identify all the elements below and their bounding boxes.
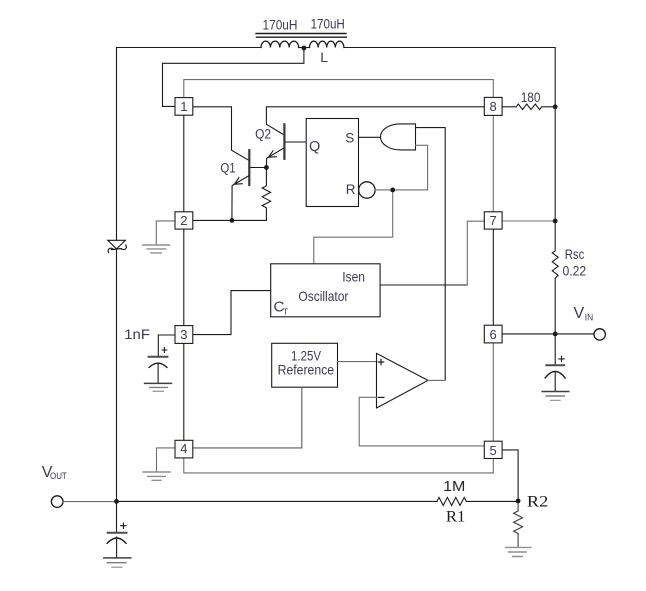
transistor Q2 bar — [283, 124, 285, 159]
wire Vin junction to terminal — [555, 333, 594, 335]
vertical pin7 to pin6 — [492, 229, 494, 325]
terminal Vout circle — [51, 496, 63, 508]
svg-text:180: 180 — [521, 90, 541, 105]
wire Q2 collector to pin8 left — [266, 107, 483, 134]
capacitor Cout plus plate — [108, 532, 127, 534]
and gate U2 (left facing) — [381, 124, 416, 150]
vertical pin3 to pin4 — [183, 343, 185, 440]
svg-text:T: T — [283, 307, 288, 317]
flip-flop S wire to gate — [359, 136, 382, 138]
diode D1 lead lower — [116, 250, 118, 502]
comparator U3 — [377, 353, 429, 408]
wire gate top input to comparator output — [416, 128, 446, 380]
ground (pin4) — [143, 472, 170, 480]
comparator minus sign — [378, 396, 384, 398]
oscillator box — [271, 264, 380, 317]
capacitor Cout lead lower — [116, 537, 118, 557]
right rail pin8 junction down to pin7 junction — [554, 107, 556, 221]
reference box — [272, 343, 338, 387]
svg-text:Q2: Q2 — [255, 127, 271, 142]
capacitor 1nF lead — [157, 364, 159, 383]
wire top rail right to right column — [344, 48, 555, 107]
wire oscillator CT to pin3 — [193, 291, 271, 335]
pin 7 box — [484, 212, 502, 229]
flip-flop R bubble — [359, 182, 375, 198]
capacitor Cout plus sign — [121, 523, 126, 528]
wire pin7 right to right rail — [502, 220, 555, 222]
pin 4 box — [175, 440, 193, 458]
vertical pin6 to pin5 — [492, 343, 494, 441]
transistor Q1 bar — [248, 150, 250, 185]
pin 5 box — [484, 441, 502, 458]
svg-text:4: 4 — [180, 441, 187, 456]
transistor Q2 base wire — [286, 141, 307, 143]
pin 3 box — [175, 326, 193, 344]
svg-text:S: S — [345, 131, 354, 146]
svg-text:Q1: Q1 — [220, 160, 235, 175]
diode D1 cathode curl — [108, 245, 126, 252]
flip-flop U1 box — [306, 119, 358, 207]
capacitor 1nF plus sign — [162, 348, 167, 353]
capacitor Cin lead — [554, 334, 556, 364]
vertical pin1 to pin2 — [183, 115, 185, 212]
wire R bubble to junction — [375, 189, 428, 191]
wire from inductor junction down-left to pin 1 — [163, 48, 304, 106]
wire pin3 left to capacitor — [158, 335, 175, 356]
wire pin1-top to pin8-top rail — [184, 80, 494, 98]
svg-text:1nF: 1nF — [124, 326, 150, 342]
transistor Q1 emitter — [232, 176, 249, 221]
svg-text:170uH: 170uH — [311, 17, 345, 32]
wire inductor interconnect — [299, 47, 310, 49]
resistor R2 — [514, 501, 523, 547]
vertical pin8 to pin7 — [492, 115, 494, 211]
capacitor Cin plus sign — [559, 356, 564, 361]
svg-text:IN: IN — [585, 313, 593, 323]
resistor Rsc — [552, 221, 558, 334]
diode D1 — [108, 240, 126, 249]
svg-text:3: 3 — [180, 327, 187, 342]
svg-text:R1: R1 — [446, 509, 466, 526]
svg-text:OUT: OUT — [50, 471, 67, 481]
resistor 180 — [502, 104, 555, 110]
svg-text:170uH: 170uH — [263, 17, 298, 32]
wire Isen up to pin7 left — [467, 221, 485, 285]
svg-text:6: 6 — [490, 327, 497, 342]
junction dot Q1 emitter / pin2 row — [230, 218, 235, 223]
wire comparator minus to pin5 — [359, 397, 485, 446]
svg-text:Reference: Reference — [278, 362, 335, 378]
wire reference bottom to pin4 — [193, 387, 302, 448]
wire comparator output — [428, 379, 445, 381]
pin 1 box — [175, 98, 193, 116]
svg-text:0.22: 0.22 — [563, 264, 587, 279]
junction dot pin7/rail — [553, 219, 558, 224]
svg-text:1: 1 — [180, 99, 187, 114]
ground (Cout) — [104, 557, 131, 559]
capacitor 1nF arc plate — [149, 363, 167, 367]
ground (pin2) — [143, 245, 170, 253]
wire pin6 right to Vin junction — [502, 333, 555, 335]
svg-text:2: 2 — [180, 213, 187, 228]
junction dot R line — [390, 188, 395, 193]
svg-text:Oscillator: Oscillator — [298, 288, 348, 304]
wire pin4 bottom rail to pin5 bottom — [184, 458, 494, 473]
junction dot R1/R2 — [516, 499, 521, 504]
junction dot 180/rail — [553, 104, 558, 109]
junction dot Vin — [553, 332, 558, 337]
wire oscillator Isen output — [380, 284, 467, 286]
svg-text:7: 7 — [490, 213, 497, 228]
inductor L 170uH left half — [261, 41, 299, 47]
capacitor 1nF plus plate — [149, 356, 168, 358]
junction dot inductor — [302, 46, 307, 51]
svg-text:V: V — [574, 305, 585, 322]
transistor Q2 emitter — [266, 149, 283, 168]
svg-text:Q: Q — [309, 139, 320, 155]
wire pin5 right to R2 — [502, 450, 518, 501]
wire R junction down to oscillator top — [314, 190, 393, 264]
wire pin4 left to ground — [157, 448, 176, 471]
wire Vout row to R1 — [117, 500, 437, 502]
resistor R1 — [437, 497, 518, 505]
wire Vout terminal to junction — [63, 501, 117, 503]
wire pin2 row — [193, 219, 267, 221]
capacitor Cout lead — [116, 501, 118, 531]
svg-text:5: 5 — [490, 443, 497, 458]
svg-text:Rsc: Rsc — [565, 247, 585, 262]
junction dot Q1 base / Q2 emitter — [264, 165, 269, 170]
pin 2 box — [175, 212, 193, 229]
svg-text:R2: R2 — [527, 494, 548, 511]
wire gate lower input — [416, 145, 428, 190]
value label underline double — [256, 34, 346, 38]
svg-text:L: L — [320, 49, 328, 65]
pin 6 box — [484, 325, 502, 343]
vertical pin2 to pin3 — [183, 229, 185, 326]
svg-text:1M: 1M — [443, 479, 465, 495]
resistor (internal, Q2 emitter) — [262, 168, 270, 221]
svg-text:8: 8 — [490, 99, 497, 114]
wire pin2 left to ground — [156, 221, 175, 244]
capacitor Cin arc plate — [545, 371, 565, 378]
ground (R2) — [505, 547, 531, 556]
svg-text:Isen: Isen — [342, 269, 365, 285]
terminal Vin circle — [594, 329, 605, 340]
svg-text:R: R — [346, 182, 356, 197]
capacitor Cin plus plate — [546, 364, 564, 366]
capacitor Cout arc plate — [107, 538, 126, 543]
ground (1nF cap) — [145, 382, 172, 384]
comparator plus sign — [378, 359, 383, 364]
wire reference to comparator plus — [338, 361, 377, 363]
transistor Q1 base wire — [251, 167, 267, 169]
ground (Cin) — [542, 391, 569, 393]
pin 8 box — [484, 97, 502, 115]
wire top rail left — [117, 47, 262, 49]
inductor L 170uH right half — [310, 41, 344, 47]
wire left vertical rail (top to Vout) — [116, 48, 118, 241]
capacitor Cin lead lower — [554, 372, 556, 392]
junction dot Vout — [114, 499, 119, 504]
wire pin1 right to Q1 collector — [193, 107, 249, 161]
